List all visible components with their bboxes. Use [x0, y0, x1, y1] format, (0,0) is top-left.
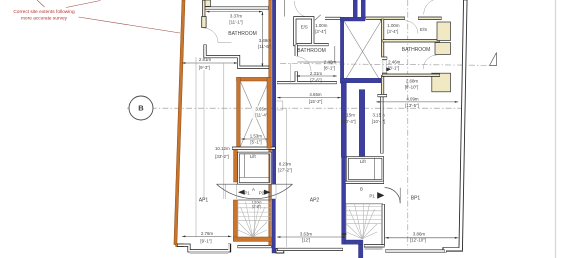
- shower screen: [334, 46, 336, 62]
- wall end cap: [202, 17, 206, 28]
- dim 2.31m AP2: [296, 75, 336, 77]
- svg-text:B: B: [360, 187, 363, 192]
- bathroom AP2 left wall + door: [295, 45, 298, 56]
- orange party wall A right: [269, 0, 272, 245]
- bottom wall left step: [177, 244, 230, 251]
- dim 4.09m B: [376, 101, 458, 103]
- wall: A bathroom top: [204, 6, 269, 9]
- section dash-dot line right: [280, 64, 489, 66]
- B bathroom right wall upper blocks: [437, 22, 451, 41]
- shaft inner label: [252, 106, 270, 119]
- wall: A bathroom left upper: [202, 0, 205, 27]
- red annotation leader lines: [37, 0, 180, 33]
- svg-text:[11'-1"]: [11'-1"]: [229, 19, 242, 24]
- svg-text:[8'-10"]: [8'-10"]: [405, 84, 419, 89]
- lift A divider lines: [243, 154, 245, 178]
- svg-text:BATHROOM: BATHROOM: [297, 48, 326, 54]
- svg-text:2.81m: 2.81m: [199, 57, 212, 62]
- svg-text:1.53m: 1.53m: [250, 134, 263, 139]
- svg-text:2.46m: 2.46m: [324, 60, 337, 65]
- svg-text:B: B: [138, 104, 144, 113]
- svg-text:1.00m: 1.00m: [315, 23, 328, 28]
- svg-text:[10'-4"]: [10'-4"]: [342, 119, 356, 124]
- central shaft bottom wall (blue-dark): [340, 78, 381, 83]
- door arc A bathroom: [203, 28, 218, 43]
- svg-text:[11'-4"]: [11'-4"]: [255, 113, 268, 118]
- svg-text:4.09m: 4.09m: [406, 96, 419, 101]
- svg-text:1.00m: 1.00m: [387, 23, 400, 28]
- corridor wall right of second blue: [380, 96, 383, 154]
- stair A top landing line: [238, 199, 272, 201]
- jamb return bottom: [382, 73, 387, 76]
- central shaft X: [344, 21, 381, 82]
- svg-text:Lift: Lift: [250, 154, 257, 159]
- B bathroom right wall lower block: [432, 73, 451, 92]
- chord line: [217, 183, 293, 185]
- svg-text:4.65m: 4.65m: [309, 92, 322, 97]
- svg-text:E/S: E/S: [301, 25, 308, 30]
- entry door arc B top right: [424, 0, 440, 15]
- E/S box AP2: [295, 18, 329, 45]
- bottom boundary wall AP2: [277, 248, 343, 251]
- door arc bathroom B: [423, 55, 437, 69]
- svg-text:[27'-2"]: [27'-2"]: [278, 168, 292, 173]
- svg-text:3.65m: 3.65m: [255, 107, 268, 112]
- ext line left of AP2 bathroom: [290, 63, 292, 83]
- shaft X cross: [240, 81, 269, 147]
- orange outer left wall: [174, 0, 185, 245]
- svg-text:AP1: AP1: [199, 197, 209, 203]
- orange party widening at shaft: [267, 77, 271, 148]
- B bathroom bottom wall: [382, 74, 440, 77]
- wall under stair B: [364, 244, 385, 247]
- svg-text:BP1: BP1: [411, 195, 421, 201]
- B block left wall upper: [381, 19, 384, 58]
- dim 3.86m: [385, 237, 458, 239]
- entry door arc top: [294, 1, 311, 18]
- wall: A left column top: [203, 0, 210, 6]
- dim 4.65m AP2: [277, 97, 341, 99]
- svg-text:P1: P1: [244, 191, 250, 196]
- svg-text:[9'-3"]: [9'-3"]: [199, 65, 210, 70]
- svg-text:BATHROOM: BATHROOM: [402, 47, 431, 53]
- svg-text:3.63m: 3.63m: [300, 231, 313, 236]
- svg-text:A: A: [252, 187, 255, 192]
- big swing arc: [217, 184, 293, 198]
- svg-text:[13'-5"]: [13'-5"]: [405, 103, 419, 108]
- svg-text:[3'-4"]: [3'-4"]: [315, 29, 326, 34]
- top wall AP2 to blue: [325, 17, 341, 20]
- svg-text:3.49m: 3.49m: [259, 38, 272, 43]
- landing wall below lift B: [345, 181, 384, 184]
- grid bubble B: [129, 96, 153, 120]
- blue wall bars going up: [353, 0, 357, 17]
- door arc B: [385, 188, 401, 204]
- orange shaft walls: [237, 77, 272, 81]
- shaft bottom wall: [232, 147, 276, 150]
- svg-text:2.31m: 2.31m: [310, 71, 323, 76]
- tick on blue wall: [342, 233, 347, 235]
- triangle marker: [490, 53, 497, 66]
- svg-text:[9'-1"]: [9'-1"]: [200, 239, 211, 244]
- door arc bathroom AP2: [296, 57, 311, 72]
- grid line B (dash-dot horizontal): [127, 107, 461, 109]
- step right of blue A: [276, 248, 284, 253]
- blue party wall B left: [272, 0, 275, 184]
- faint vertical extension at bathroom wall face: [203, 70, 205, 199]
- svg-text:[3'-4"]: [3'-4"]: [387, 29, 398, 34]
- grey pavement strip: [190, 252, 229, 254]
- svg-text:[33'-2"]: [33'-2"]: [215, 154, 229, 159]
- blue top horizontal: [340, 17, 365, 21]
- boundary centerline vertical (property line): [407, 0, 409, 248]
- svg-text:Correct site extents following: Correct site extents following: [13, 9, 75, 15]
- orange bottom-left stub: [176, 244, 184, 247]
- wall: A bathroom left step: [205, 45, 269, 68]
- entry side wall: [284, 0, 286, 17]
- dim 3.37m line: [206, 11, 262, 13]
- top wall B: [366, 17, 405, 20]
- dim 8.23m: [285, 108, 287, 247]
- svg-text:3.86m: 3.86m: [413, 231, 426, 236]
- lift A box: [238, 153, 270, 183]
- svg-text:AP2: AP2: [310, 197, 320, 203]
- dim 2.81m: [182, 62, 237, 64]
- svg-text:3.15m: 3.15m: [343, 112, 356, 117]
- svg-text:P1: P1: [369, 193, 375, 198]
- svg-text:[7'-6"]: [7'-6"]: [310, 77, 321, 82]
- svg-text:2.76m: 2.76m: [201, 231, 214, 236]
- wall under stair A: [238, 245, 272, 248]
- svg-text:P2: P2: [259, 191, 265, 196]
- dim 2.46m AP2: [297, 61, 341, 63]
- door leaf line: [218, 42, 232, 44]
- svg-text:[5'-1"]: [5'-1"]: [250, 140, 261, 145]
- svg-text:2.68m: 2.68m: [406, 78, 419, 83]
- connector wall corridor to B block: [378, 94, 388, 97]
- dim 2.76m: [182, 235, 231, 237]
- dim 1.53m: [241, 138, 270, 140]
- svg-text:[12']: [12']: [302, 237, 310, 242]
- orange stair walls: [233, 200, 237, 241]
- arrow P1 left: [238, 190, 245, 195]
- orange wall beside lift A: [234, 150, 238, 183]
- jamb extension lines: [225, 185, 227, 200]
- svg-text:E/S: E/S: [420, 27, 427, 32]
- svg-text:2.46m: 2.46m: [388, 59, 401, 64]
- extension line from door jamb: [223, 63, 225, 199]
- central shaft right wall grey: [380, 19, 383, 21]
- svg-text:more accurate survey: more accurate survey: [21, 16, 68, 22]
- right outer wall of building B: [445, 0, 466, 252]
- blue bottom L: [345, 240, 363, 244]
- svg-text:3.37m: 3.37m: [230, 13, 243, 18]
- B block left wall lower: [381, 75, 384, 95]
- svg-text:8.23m: 8.23m: [279, 162, 292, 167]
- svg-text:[12'-10"]: [12'-10"]: [410, 238, 426, 243]
- wall stub right of blue at grid B: [276, 101, 282, 110]
- stair B top landing line: [346, 203, 383, 205]
- svg-text:Lift: Lift: [360, 159, 367, 164]
- svg-text:[11'-6"]: [11'-6"]: [258, 44, 271, 49]
- jamb return top: [382, 57, 387, 60]
- svg-text:[15'-2"]: [15'-2"]: [309, 99, 323, 104]
- blue wall lower vertical left: [341, 83, 346, 158]
- svg-text:BATHROOM: BATHROOM: [228, 31, 257, 37]
- blue center wall upper vertical: [340, 17, 343, 83]
- dim 3.49m vertical: [261, 12, 263, 67]
- bottom wall BP1: [385, 249, 445, 252]
- svg-text:10.12m: 10.12m: [215, 146, 230, 151]
- faint vertical extension AP1: [195, 57, 197, 237]
- faint page edge line right: [555, 0, 557, 258]
- E/S bottom wall B: [383, 39, 440, 42]
- E/S door leaf: [315, 15, 321, 20]
- blue second vertical: [359, 90, 365, 157]
- door leaf between corridor and B: [383, 60, 386, 73]
- svg-text:[8'-1"]: [8'-1"]: [324, 65, 335, 70]
